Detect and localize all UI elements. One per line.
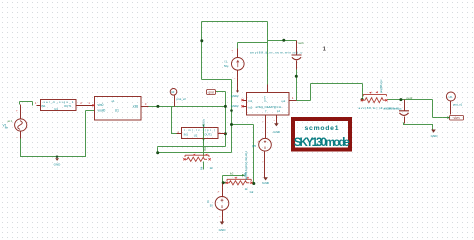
svg-text:GND2: GND2	[231, 94, 239, 98]
svg-text:any(88,b,prn(v),min,st),c: any(88,b,prn(v),min,st),c	[244, 150, 248, 180]
svg-text:IN1: IN1	[41, 104, 46, 108]
svg-text:GND: GND	[54, 163, 62, 167]
svg-text:OUT1: OUT1	[64, 104, 72, 108]
svg-text:I1: I1	[225, 60, 228, 64]
svg-text:scmode1: scmode1	[305, 125, 339, 132]
svg-text:1: 1	[323, 47, 326, 53]
svg-text:GND: GND	[431, 134, 439, 138]
svg-text:vin0: vin0	[98, 103, 104, 107]
svg-text:L2: L2	[277, 109, 281, 113]
svg-text:I2: I2	[207, 200, 210, 204]
svg-text:SKY130mode: SKY130mode	[294, 137, 350, 149]
svg-text:+: +	[218, 189, 220, 193]
svg-text:U3: U3	[171, 90, 175, 94]
svg-text:+: +	[231, 49, 233, 53]
svg-text:e1: e1	[112, 99, 116, 103]
svg-text:U6: U6	[449, 95, 453, 99]
svg-text:1k: 1k	[210, 166, 214, 170]
svg-text:−: −	[262, 160, 264, 164]
svg-text:+: +	[258, 139, 260, 143]
svg-text:net1: net1	[298, 41, 304, 45]
svg-text:vlvn: vlvn	[453, 116, 459, 120]
svg-text:U1: U1	[115, 109, 119, 113]
svg-text:b3,lv2c: b3,lv2c	[202, 118, 206, 127]
svg-text:−: −	[262, 119, 264, 123]
svg-text:gnd: gnd	[208, 90, 214, 94]
svg-text:U2: U2	[194, 134, 198, 138]
svg-text:ac 1: ac 1	[8, 119, 13, 123]
svg-text:R4: R4	[200, 166, 204, 170]
svg-text:GND: GND	[273, 130, 281, 134]
svg-text:−: −	[234, 76, 236, 80]
svg-text:R5: R5	[252, 144, 256, 148]
svg-text:any(88,&,m_sum,min,st),c: any(88,&,m_sum,min,st),c	[250, 50, 303, 54]
svg-text:prot_v2: prot_v2	[177, 97, 187, 101]
svg-text:in1: in1	[249, 99, 253, 103]
svg-text:−: −	[219, 215, 221, 219]
svg-text:a,v(88,min,st),c: a,v(88,min,st),c	[384, 106, 403, 110]
svg-text:G2: G2	[250, 190, 254, 194]
svg-text:50u: 50u	[224, 64, 229, 68]
svg-text:x38: x38	[133, 104, 138, 108]
svg-text:T: T	[265, 109, 267, 113]
svg-text:sin: sin	[5, 126, 9, 130]
svg-text:in2: in2	[249, 106, 253, 110]
svg-text:any(88,st),c: any(88,st),c	[379, 79, 383, 93]
svg-text:IN1: IN1	[184, 133, 189, 137]
svg-text:prot_v1: prot_v1	[453, 103, 463, 107]
svg-text:U4: U4	[54, 107, 58, 111]
svg-text:GND: GND	[262, 181, 270, 185]
svg-text:vout0: vout0	[98, 109, 106, 113]
svg-text:GND2: GND2	[231, 104, 239, 108]
svg-text:+: +	[16, 108, 18, 112]
svg-text:−: −	[274, 118, 276, 122]
svg-text:fb1: fb1	[203, 146, 207, 150]
svg-text:out: out	[281, 99, 285, 103]
svg-text:−: −	[16, 136, 18, 140]
svg-text:net1: net1	[407, 96, 413, 100]
svg-text:−: −	[399, 102, 401, 106]
svg-text:GND: GND	[219, 228, 227, 232]
svg-text:OUT1: OUT1	[204, 133, 212, 137]
